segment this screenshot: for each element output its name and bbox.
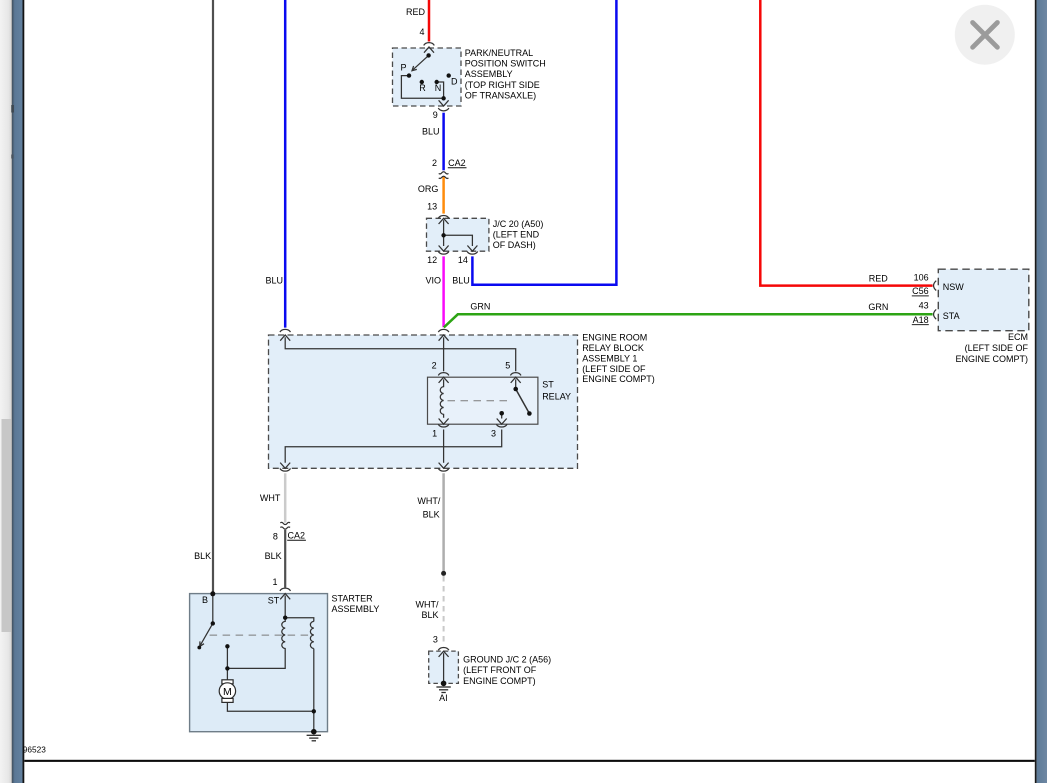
svg-text:2: 2	[432, 158, 437, 168]
svg-text:1: 1	[272, 577, 277, 587]
wire WHT relay block to CA2	[284, 473, 287, 522]
pin3 arc	[496, 424, 507, 427]
ground J/C dot	[441, 681, 447, 687]
svg-text:WHT/: WHT/	[417, 496, 440, 506]
svg-text:GRN: GRN	[868, 302, 888, 312]
B internal wire	[212, 594, 214, 623]
svg-text:BLU: BLU	[422, 126, 440, 136]
exit arc pin14	[467, 251, 478, 254]
gutter divider	[10, 0, 13, 783]
motor to bottom path	[227, 703, 313, 712]
CA2 inline connector (8)	[280, 522, 290, 529]
engine room relay block box	[269, 335, 578, 468]
starter assembly box	[190, 594, 328, 732]
svg-text:B: B	[202, 595, 208, 605]
svg-text:(LEFT SIDE OF: (LEFT SIDE OF	[582, 364, 646, 374]
B pivot dot	[211, 621, 215, 625]
pin1 wire down	[443, 430, 445, 463]
relay coil	[440, 379, 443, 417]
motor circle	[219, 683, 235, 699]
B terminal dot	[210, 591, 215, 596]
ST internal wire	[285, 596, 314, 622]
entry chevron pin13	[439, 218, 449, 224]
connector chevron pin4	[424, 47, 434, 53]
pin1 arc	[438, 424, 449, 427]
switch arm P/N	[413, 55, 429, 70]
ECM pin STA paren	[934, 309, 937, 319]
ground J/C internal wire	[443, 653, 445, 683]
junction dot exit	[441, 96, 445, 100]
exit arc left	[280, 468, 291, 471]
wire BLK CA2 to starter ST	[284, 530, 286, 588]
B switch arm	[200, 623, 213, 645]
close button	[955, 5, 1015, 65]
svg-text:BLK: BLK	[265, 551, 282, 561]
svg-text:ST: ST	[268, 595, 280, 605]
svg-text:BLK: BLK	[423, 510, 440, 520]
wire GRN ECM STA to relay block	[444, 314, 933, 327]
svg-text:C56: C56	[912, 286, 929, 296]
svg-text:3: 3	[491, 429, 496, 439]
svg-text:(LEFT END: (LEFT END	[493, 230, 540, 240]
svg-text:(LEFT SIDE OF: (LEFT SIDE OF	[965, 343, 1029, 353]
svg-text:WHT/: WHT/	[416, 600, 439, 610]
relay pin3 dot	[499, 411, 504, 416]
svg-text:CA2: CA2	[448, 158, 466, 168]
starter coil left	[282, 618, 285, 649]
left gutter thumb	[2, 419, 12, 632]
exit chevron center	[439, 463, 449, 469]
wire ORG CA2 to J/C20	[442, 177, 445, 214]
left dark border	[23, 0, 25, 783]
wire BLU left vertical to relay block	[284, 0, 287, 328]
starter linkage dashed	[210, 634, 314, 636]
svg-text:43: 43	[919, 301, 929, 311]
svg-text:96523: 96523	[23, 745, 46, 755]
svg-text:CA2: CA2	[288, 531, 306, 541]
wire BLU J/C20 pin14 up to top	[472, 0, 616, 285]
B arm tip dot	[197, 646, 201, 650]
svg-text:ORG: ORG	[418, 184, 439, 194]
ST entry chevron	[280, 594, 290, 600]
svg-text:ECM: ECM	[1008, 332, 1028, 342]
svg-text:ASSEMBLY: ASSEMBLY	[332, 604, 380, 614]
exit chevron left	[280, 463, 290, 469]
svg-text:9: 9	[433, 110, 438, 120]
ST entry arc	[280, 588, 291, 591]
svg-text:13: 13	[427, 202, 437, 212]
connector seagull upper	[439, 172, 449, 174]
svg-text:RED: RED	[869, 273, 889, 283]
pin3 stem	[501, 413, 503, 418]
J/C junction dot	[441, 233, 445, 237]
svg-text:PARK/NEUTRAL: PARK/NEUTRAL	[465, 48, 533, 58]
ST relay inner box	[428, 377, 538, 424]
ECM box	[938, 269, 1029, 331]
svg-text:POSITION SWITCH: POSITION SWITCH	[465, 59, 546, 69]
svg-text:WHT: WHT	[260, 493, 281, 503]
svg-text:AI: AI	[439, 693, 448, 703]
svg-text:N: N	[435, 83, 442, 93]
P contact dot	[407, 73, 411, 77]
svg-text:5: 5	[505, 360, 510, 370]
svg-text:ST: ST	[542, 380, 554, 390]
motor stub contact	[226, 646, 228, 680]
ground J/C entry arc	[438, 647, 449, 650]
svg-text:GROUND J/C 2 (A56): GROUND J/C 2 (A56)	[463, 654, 551, 664]
svg-text:VIO: VIO	[425, 275, 441, 285]
pin3 chevron	[497, 419, 507, 425]
internal wire to pin5	[285, 337, 516, 371]
motor stub dot	[225, 644, 229, 648]
wire RED right to ECM NSW	[760, 0, 932, 286]
svg-text:OF DASH): OF DASH)	[493, 240, 536, 250]
svg-text:STA: STA	[943, 311, 960, 321]
svg-text:BLU: BLU	[452, 275, 470, 285]
sidebar speck 2	[11, 155, 13, 159]
left slate sidebar	[12, 0, 23, 783]
ground J/C 2 box	[429, 651, 459, 683]
wire BLU pin9 to CA2	[442, 113, 445, 171]
entry arc center	[438, 329, 449, 332]
svg-text:12: 12	[427, 255, 437, 265]
svg-text:8: 8	[273, 531, 278, 541]
svg-text:P: P	[401, 63, 407, 73]
wire WHT/BLK relay block down solid	[442, 473, 445, 573]
exit chevron pin9	[439, 100, 449, 106]
internal branch	[444, 235, 473, 246]
svg-text:BLK: BLK	[421, 610, 438, 620]
relay arm dot top	[513, 387, 518, 392]
sidebar speck 1	[11, 105, 14, 113]
svg-text:R: R	[419, 83, 426, 93]
ground J/C ground symbol	[436, 687, 450, 693]
exit arc center	[438, 468, 449, 471]
N contact dot	[435, 80, 439, 84]
WHT/BLK junction dot	[441, 571, 446, 576]
J/C 20 box	[427, 218, 489, 251]
ST junction dot	[283, 616, 287, 620]
entry arc left	[280, 329, 291, 332]
svg-text:RED: RED	[406, 7, 426, 17]
pivot dot	[426, 53, 430, 57]
svg-text:ASSEMBLY 1: ASSEMBLY 1	[582, 353, 637, 363]
pin5 arc	[510, 373, 521, 376]
exit arc pin12	[438, 251, 449, 254]
coil left to motor path	[227, 649, 285, 669]
bottom junction dot	[312, 709, 316, 713]
park/neutral position switch box	[393, 48, 462, 106]
internal wire	[443, 220, 445, 246]
right dark border	[1035, 0, 1037, 783]
svg-text:RELAY: RELAY	[542, 392, 571, 402]
starter coil right	[310, 621, 313, 648]
pin2 arc	[438, 373, 449, 376]
motor junction dot	[225, 666, 229, 670]
connector arc pin4	[424, 43, 435, 46]
svg-text:ENGINE COMPT): ENGINE COMPT)	[582, 374, 655, 384]
pin5 stem	[515, 379, 517, 389]
motor brush bottom	[222, 698, 233, 702]
svg-text:BLU: BLU	[265, 275, 283, 285]
motor brush top	[222, 680, 233, 684]
svg-text:OF TRANSAXLE): OF TRANSAXLE)	[465, 91, 536, 101]
svg-text:A18: A18	[913, 315, 929, 325]
exit chevron pin14	[467, 246, 477, 252]
svg-text:STARTER: STARTER	[332, 593, 374, 603]
exit arc pin9	[438, 108, 449, 111]
arm arrowhead	[412, 66, 417, 71]
svg-text:(TOP RIGHT SIDE: (TOP RIGHT SIDE	[465, 80, 540, 90]
B arm arrowhead	[200, 641, 204, 646]
svg-text:NSW: NSW	[943, 282, 965, 292]
svg-text:2: 2	[432, 360, 437, 370]
wire WHT/BLK dashed to ground J/C	[443, 576, 445, 644]
entry arc pin13	[438, 215, 449, 218]
entry chevron center	[439, 335, 449, 341]
coil right down path	[313, 649, 315, 732]
svg-text:RELAY BLOCK: RELAY BLOCK	[582, 343, 644, 353]
svg-text:J/C 20 (A50): J/C 20 (A50)	[493, 219, 544, 229]
ECM pin NSW paren	[934, 281, 937, 291]
pin1 chevron	[439, 419, 449, 425]
svg-text:M: M	[223, 686, 232, 698]
ground dot starter	[311, 729, 317, 735]
svg-text:3: 3	[433, 635, 438, 645]
D contact dot	[447, 73, 451, 77]
starter ground symbol	[307, 735, 321, 741]
pin2 chevron	[439, 377, 449, 383]
svg-text:ENGINE COMPT): ENGINE COMPT)	[463, 676, 536, 686]
wire RED top to P/N switch	[428, 0, 431, 42]
svg-text:1: 1	[432, 429, 437, 439]
svg-text:14: 14	[458, 255, 468, 265]
pin3 wire to left	[285, 430, 502, 463]
P contact path	[401, 76, 443, 99]
wire VIO J/C20 to relay block	[442, 256, 445, 327]
internal wire to pin2	[443, 337, 445, 371]
relay switch arm	[516, 389, 530, 414]
R contact dot	[420, 80, 424, 84]
svg-text:ENGINE COMPT): ENGINE COMPT)	[955, 354, 1028, 364]
pin5 chevron	[511, 377, 521, 383]
connector seagull lower	[439, 176, 449, 178]
svg-text:ASSEMBLY: ASSEMBLY	[465, 69, 513, 79]
svg-text:BLK: BLK	[194, 551, 211, 561]
svg-text:106: 106	[914, 272, 929, 282]
svg-text:(LEFT FRONT OF: (LEFT FRONT OF	[463, 665, 537, 675]
wire BLK vertical to starter B	[212, 0, 214, 593]
exit chevron pin12	[439, 246, 449, 252]
svg-text:GRN: GRN	[470, 301, 490, 311]
relay arm dot bottom	[527, 411, 532, 416]
bottom rule	[24, 760, 1035, 762]
left gutter strip	[0, 0, 12, 783]
svg-text:ENGINE ROOM: ENGINE ROOM	[582, 333, 647, 343]
svg-text:4: 4	[419, 27, 424, 37]
svg-text:D: D	[451, 77, 458, 87]
ground J/C entry chevron	[439, 651, 449, 657]
relay linkage dashed	[448, 400, 512, 402]
right slate sidebar	[1037, 0, 1047, 783]
entry chevron left	[280, 335, 290, 341]
